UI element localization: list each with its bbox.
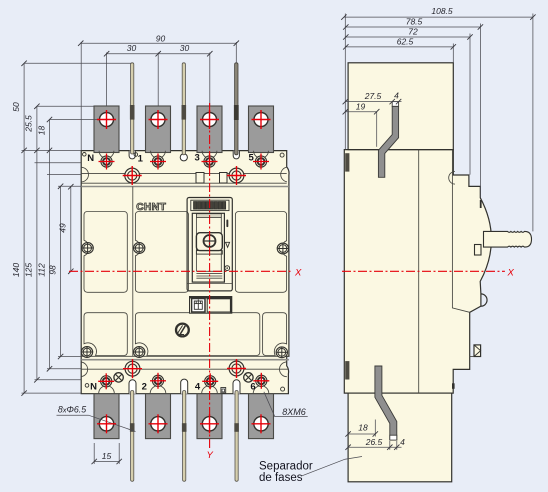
svg-text:4: 4 — [400, 437, 405, 447]
padlock slots on top strip — [196, 173, 204, 184]
side dim 27.5 / 4 — [345, 101, 401, 103]
front top strip internal lines — [81, 172, 287, 174]
X centerline side view — [342, 270, 505, 272]
rating setting block — [191, 200, 229, 210]
DIN latch with cross — [470, 345, 481, 357]
upper-middle pole window — [135, 212, 188, 293]
red crosshairs bottom tab holes — [97, 414, 116, 433]
svg-text:2: 2 — [142, 382, 147, 393]
bottom phase separator rod 2 — [182, 391, 187, 482]
internal seam lines — [418, 150, 420, 394]
top separator slots — [129, 151, 135, 159]
top terminal tab 1 — [146, 106, 171, 153]
rocker screw — [204, 235, 216, 247]
svg-text:N: N — [87, 153, 94, 164]
side dim 72 — [346, 36, 470, 38]
side dim 18 bottom — [348, 433, 375, 435]
toggle handle (side) — [484, 231, 532, 247]
side extension verticals — [344, 14, 346, 150]
svg-text:98: 98 — [47, 265, 57, 275]
dimension texts — [11, 6, 453, 461]
top terminal tab N — [94, 106, 119, 153]
svg-text:CHNT: CHNT — [136, 202, 166, 213]
side view top terminal block — [348, 63, 453, 150]
label window frame — [190, 297, 232, 314]
top phase separator rod 1 — [130, 63, 135, 154]
OFF triangle indicator — [226, 242, 230, 247]
svg-text:140: 140 — [11, 263, 21, 277]
leader separador de fases — [301, 457, 362, 477]
upper-left pole window — [84, 212, 127, 293]
svg-text:18: 18 — [36, 126, 46, 136]
bottom phase separator rod 1 — [130, 391, 135, 482]
red crosshairs top big screws — [123, 166, 142, 185]
svg-text:50: 50 — [11, 102, 21, 112]
svg-text:Y: Y — [207, 450, 214, 461]
Y centerline — [209, 103, 211, 448]
svg-text:8xΦ6.5: 8xΦ6.5 — [58, 405, 86, 415]
red crosshairs bottom big screws — [123, 359, 142, 378]
dim 30 lines — [107, 53, 210, 55]
svg-text:30: 30 — [180, 43, 190, 53]
bottom big mounting screws — [125, 361, 140, 376]
step pin detail — [449, 172, 455, 185]
left dim vertical B (25.5/125) — [36, 106, 38, 380]
bottom small cross screws — [114, 373, 123, 382]
side dim 108.5 — [344, 16, 533, 18]
svg-text:72: 72 — [408, 27, 418, 37]
bottom terminal tab 4 — [197, 394, 222, 439]
svg-text:N: N — [90, 382, 97, 393]
bottom terminal tab N — [94, 394, 119, 439]
top terminal tab 3 — [197, 106, 222, 153]
lower connection busbar (side) — [375, 366, 397, 440]
red crosshairs top pole screws — [99, 154, 115, 170]
svg-text:de fases: de fases — [259, 472, 303, 484]
bottom terminal tab 6 — [249, 394, 274, 439]
top terminal tab 5 — [249, 106, 274, 153]
red crosshairs top tab holes — [97, 110, 116, 129]
svg-text:112: 112 — [36, 263, 46, 277]
bottom terminal tab 2 — [146, 394, 171, 439]
top phase separator rod 3 — [234, 63, 239, 155]
svg-text:30: 30 — [127, 43, 137, 53]
label window opening — [207, 299, 230, 312]
bottom pole screw seats — [99, 386, 115, 394]
side view bottom terminal block (separador) — [348, 393, 452, 482]
svg-text:49: 49 — [58, 223, 68, 233]
upper busbar white cap — [392, 102, 398, 107]
lower-middle pole window — [135, 313, 259, 356]
small round holes on strips — [83, 153, 87, 157]
svg-text:3: 3 — [195, 153, 200, 164]
X centerline front view — [69, 270, 291, 272]
svg-text:26.5: 26.5 — [365, 437, 383, 447]
edge tick detail — [452, 383, 455, 389]
reset小 circle — [225, 266, 230, 271]
side dim 78.5 — [346, 26, 481, 28]
svg-text:15: 15 — [102, 451, 112, 461]
svg-text:27.5: 27.5 — [364, 91, 382, 101]
svg-text:Separador: Separador — [259, 461, 313, 473]
side dim 26.5 / 4 bottom — [348, 446, 401, 448]
svg-text:62.5: 62.5 — [397, 37, 414, 47]
pole divider line — [132, 187, 134, 357]
left edge nub top — [345, 153, 349, 171]
pole window screws — [82, 243, 93, 254]
left dim vertical C (18/112) — [49, 120, 51, 369]
left horizontal extension lines — [24, 62, 131, 64]
svg-text:19: 19 — [356, 102, 366, 112]
ON I indicator — [226, 220, 228, 228]
leader 8XM6 — [264, 392, 308, 417]
side view main body outline — [344, 150, 491, 394]
svg-text:78.5: 78.5 — [406, 17, 423, 27]
svg-text:8XM6: 8XM6 — [282, 407, 306, 417]
svg-text:X: X — [294, 268, 302, 279]
leader 8xPhi6.5 — [57, 415, 136, 431]
dim 15 under tab N — [93, 443, 95, 464]
side dim 19 — [345, 111, 376, 113]
bottom phase separator rod 3 — [234, 391, 239, 482]
upper connection busbar (side) — [378, 106, 398, 177]
svg-text:1: 1 — [138, 154, 144, 165]
lower-left pole window — [84, 313, 127, 356]
svg-text:4: 4 — [195, 382, 201, 393]
lower bump detail — [481, 294, 487, 306]
trip test button — [176, 324, 189, 337]
bottom separator keyhole slots — [129, 380, 136, 394]
top extension lines — [80, 42, 82, 150]
top pole terminal screws — [101, 156, 112, 167]
left dim vertical D (98) — [60, 186, 62, 356]
upper-right pole window — [235, 212, 286, 293]
bottom pole terminal screws — [101, 376, 112, 387]
svg-text:90: 90 — [156, 33, 166, 43]
toggle handle rocker — [196, 233, 222, 251]
operating mechanism outer frame — [187, 198, 232, 291]
red crosshairs bottom pole screws — [98, 373, 114, 389]
svg-text:4: 4 — [394, 91, 399, 101]
lower busbar white cap — [390, 435, 397, 440]
svg-text:125: 125 — [24, 263, 34, 277]
small square detail bottom strip — [221, 388, 226, 394]
svg-text:18: 18 — [358, 423, 368, 433]
front bottom strip internal lines — [81, 355, 289, 357]
svg-text:25.5: 25.5 — [24, 115, 34, 133]
handle base latch — [475, 245, 482, 256]
dim 90 line — [81, 42, 237, 44]
svg-text:X: X — [507, 268, 515, 279]
left dim vertical E (49) — [70, 187, 72, 272]
side dim 62.5 — [346, 46, 454, 48]
top phase separator rod 2 — [182, 63, 187, 155]
left edge nub bottom — [345, 361, 349, 379]
toggle slot inner frame — [192, 213, 224, 282]
lower-right pole window — [263, 313, 287, 356]
corner notch arcs — [81, 167, 88, 182]
left dim chain vertical A (50/140) — [23, 63, 25, 393]
svg-text:6: 6 — [250, 382, 255, 393]
breaker front view body outline — [81, 151, 289, 394]
top pole screw seats — [99, 151, 114, 158]
svg-text:108.5: 108.5 — [431, 6, 453, 16]
top big mounting screws — [125, 168, 140, 183]
label window grid icon — [192, 299, 205, 313]
slot bottom ribs — [196, 270, 222, 272]
